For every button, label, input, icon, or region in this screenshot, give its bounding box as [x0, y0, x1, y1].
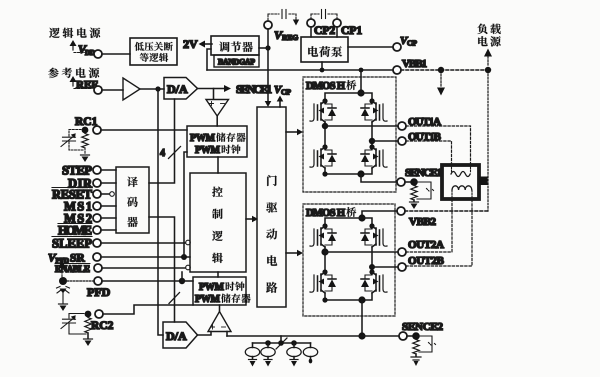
power arrow load supply — [484, 49, 492, 66]
svg-text:PWM: PWM — [195, 145, 221, 156]
power arrow REF — [70, 76, 92, 89]
motor M1 (stepper windings) — [442, 165, 488, 199]
svg-text:D/A: D/A — [167, 82, 188, 96]
wire OUT1B to motor (dashed) — [406, 141, 452, 163]
wire VDD to UVLO block — [102, 53, 130, 55]
capacitor CT2 — [61, 314, 86, 335]
wire bridge1 drain rail — [325, 93, 372, 101]
svg-text:D/A: D/A — [166, 329, 187, 343]
wire DIR to decoder — [101, 182, 116, 184]
svg-text:RC2: RC2 — [91, 320, 114, 332]
wire PWM latch1 to control logic — [217, 157, 219, 173]
svg-text:REG: REG — [282, 33, 298, 42]
wire control logic to PWM latch 2 — [217, 272, 219, 277]
node VCP label (gate drive) — [274, 84, 291, 97]
junction Q4 drain — [369, 144, 374, 149]
pin DIR — [68, 177, 101, 191]
pin OUT1B — [398, 131, 442, 145]
svg-text:PWM: PWM — [190, 133, 216, 144]
capacitor CT1 (dashed branch) — [61, 130, 83, 151]
capacitor CP1-CP2 pump cap (external, dashed) — [311, 10, 337, 20]
bus slash row — [276, 338, 287, 349]
wire PFD node to pin (dotted) — [67, 280, 94, 282]
junction PFD divider — [59, 277, 67, 285]
dac D/A 2 — [163, 322, 198, 348]
pin OUT1A — [398, 116, 441, 130]
ground I1 — [249, 357, 257, 367]
node VDD: logic supply label — [49, 28, 100, 38]
junction bridge2 top — [358, 214, 365, 221]
wire comparator2 sense input — [226, 332, 228, 337]
wire CP2 to charge pump — [310, 27, 312, 37]
svg-text:CP2: CP2 — [314, 25, 335, 37]
pin VDD — [78, 42, 102, 58]
ground I3 — [290, 357, 298, 367]
junction load cap — [438, 67, 444, 73]
junction source rail 2A — [322, 297, 327, 302]
block PWM latch 1 : PWM储存器 / PWM时钟 — [187, 126, 247, 157]
pin VPFD SR — [48, 253, 101, 266]
pin VBB1 — [393, 58, 427, 74]
pin OUT2A — [398, 239, 444, 256]
block BANDGAP — [214, 55, 259, 67]
junction Q6 drain — [369, 223, 374, 228]
svg-text:SR: SR — [70, 253, 85, 265]
block DMOS H-bridge 2 (dashed) — [303, 204, 395, 316]
block charge pump 电荷泵 — [301, 37, 348, 62]
svg-text:PWM: PWM — [199, 282, 225, 293]
pin OUT2B — [398, 255, 445, 271]
svg-text:BANDGAP: BANDGAP — [218, 58, 255, 67]
junction Q7 drain — [322, 269, 327, 274]
svg-text:OUT2B: OUT2B — [408, 255, 445, 267]
transistor Q5 (high side A) — [310, 226, 336, 247]
svg-text:VBB1: VBB1 — [402, 58, 427, 70]
junction load supply — [485, 67, 491, 73]
wire buffer to DAC1 — [140, 88, 164, 90]
svg-text:SENCE1: SENCE1 — [236, 84, 272, 96]
svg-text:CP1: CP1 — [341, 25, 362, 37]
wire RS2 loop (external) — [416, 336, 436, 352]
wire decoder bus to DAC1 (4-bit) — [149, 99, 175, 183]
svg-text:2V: 2V — [183, 37, 198, 51]
wire bridge2 source rail — [325, 293, 372, 300]
wire VBB2 feed bridge2 — [362, 211, 397, 218]
wire RC1 to PWM latch 1 — [101, 129, 187, 131]
pin MS1 — [64, 200, 101, 214]
svg-text:VBB2: VBB2 — [409, 216, 437, 228]
wire REF vertical bus to DAC2 — [158, 89, 163, 335]
junction Q8 drain — [369, 269, 374, 274]
ground I2 — [264, 357, 272, 367]
junction Q5 drain — [322, 223, 327, 228]
dac D/A 1 — [164, 78, 198, 100]
junction bridge1 feed / VBB — [359, 68, 364, 73]
transistor Q3 (low side A) — [310, 147, 336, 168]
wire OUT2B to pin — [372, 266, 398, 268]
pin HOME — [58, 224, 101, 238]
transistor Q1 (high side A) — [310, 101, 336, 122]
svg-text:4: 4 — [160, 148, 165, 159]
pin SENCE1 — [397, 167, 442, 186]
pin VCP — [393, 35, 417, 51]
wire VCP stub arrow up — [277, 96, 284, 108]
ground RS1 — [410, 200, 419, 209]
wire SR to PWM latch 1 — [184, 152, 187, 257]
ground RC1 — [81, 148, 90, 162]
wire OUT1A to motor (dashed) — [406, 126, 471, 163]
pin SLEEP — [52, 237, 101, 251]
wire ENABLE to control logic (inverting) — [102, 265, 190, 270]
transistor Q7 (low side A) — [310, 272, 336, 293]
pin SENCE2 — [399, 321, 444, 340]
junction Q2 drain — [369, 98, 374, 103]
wire charge pump to VCP pin — [348, 46, 393, 48]
wire comparator1 to PWM latch 1 — [216, 116, 218, 126]
wire DAC1 to comparator 1 — [198, 89, 214, 100]
wire DAC2 to comparator 2 — [198, 332, 212, 336]
current source I2 — [261, 343, 275, 357]
current source I3 — [287, 343, 301, 357]
pin MS2 — [64, 212, 101, 226]
junction REF node — [155, 86, 160, 91]
junction OUT1B tap — [369, 138, 375, 144]
wire PFD to control logic — [102, 280, 182, 282]
arrow into gate drive top — [265, 101, 272, 107]
wire decoder bus to DAC2 — [149, 217, 175, 322]
wire bridge1 to SENCE1 pin — [361, 174, 397, 182]
wire gate drive to bridge 1 arrow — [286, 129, 303, 136]
wire SR to control logic — [101, 256, 190, 258]
resistor RS1 (external sense) — [411, 186, 417, 201]
wire charge pump to VBB rail — [321, 62, 323, 70]
wire PWM latch2 to comparator 2 — [219, 305, 221, 311]
wire gate drive to bridge 2 arrow — [286, 250, 303, 257]
wire load supply to VBB2 (dotted vertical) — [487, 74, 489, 211]
resistor RT2 — [85, 318, 91, 334]
pin PFD — [87, 277, 111, 299]
bus slash 4 — [160, 147, 181, 160]
wire VBB feed bridge1 — [360, 70, 362, 93]
junction bridge1 sense — [357, 170, 364, 177]
wire VREG to gate drive — [267, 29, 269, 102]
current source I4 — [303, 343, 317, 357]
wire leg OUT2A — [324, 247, 326, 272]
junction source rail A — [322, 171, 327, 176]
block DMOS H-bridge 1 (dashed) — [303, 77, 396, 192]
svg-text:SENCE1: SENCE1 — [405, 167, 442, 179]
wire RESET to decoder (inverting) — [101, 192, 114, 197]
pin RC2 — [85, 310, 114, 332]
transistor Q8 (low side B) — [361, 272, 387, 293]
wire regulator 2V output arrow — [199, 41, 213, 48]
wire bridge2 to SENCE2 line — [361, 300, 363, 336]
junction SR blanking — [181, 254, 187, 260]
block decoder 译码器 — [116, 167, 149, 233]
diode zener PFD — [57, 287, 70, 304]
resistor RT1 — [82, 134, 88, 149]
comparator 1 (PWM) — [206, 100, 229, 117]
wire SENCE1 feedback stub arrow — [214, 85, 232, 92]
ground RC2 — [84, 333, 93, 346]
node load supply 负载电源 — [477, 24, 500, 34]
wire bridge1 source rail — [325, 168, 372, 174]
junction row 2 — [278, 340, 284, 346]
junction row 3 — [291, 340, 297, 346]
junction SENCE2 line — [358, 332, 365, 339]
wire bridge2 drain rail — [325, 218, 372, 226]
wire PFD to PWM latch 2 — [182, 280, 193, 282]
wire MS2 to decoder — [101, 217, 116, 219]
pin CP1 — [333, 19, 362, 37]
svg-text:CP: CP — [407, 39, 417, 48]
wire current source row — [253, 342, 311, 344]
junction OUT2A tap — [321, 248, 328, 255]
ground PFD — [59, 303, 68, 305]
junction bridge2 sense — [358, 296, 365, 303]
junction Q1 drain — [322, 98, 327, 103]
wire leg OUT2B — [371, 247, 373, 272]
pin RC1 — [75, 116, 101, 134]
wire control logic to gate drive arrow — [246, 216, 258, 223]
svg-text:OUT2A: OUT2A — [408, 239, 444, 251]
wire leg OUT1B — [371, 122, 373, 147]
svg-text:STEP: STEP — [62, 164, 92, 178]
block gate drive 门驱动电路 — [257, 107, 286, 307]
svg-text:CP: CP — [281, 88, 291, 97]
wire SLEEP to control logic (inverting) — [101, 240, 190, 245]
junction OUT1A tap — [322, 123, 328, 129]
wire SENCE2 line — [227, 335, 399, 337]
wire OUT1A to pin — [325, 125, 398, 127]
junction bridge1 top — [357, 89, 364, 96]
wire leg OUT1A — [324, 122, 326, 147]
wire MS1 to decoder — [101, 205, 116, 207]
wire current source row riser — [280, 336, 282, 343]
capacitor VREG bypass (external, dashed) — [268, 10, 299, 26]
junction charge pump / VBB — [320, 68, 325, 73]
label DMOS H桥 1 — [306, 80, 356, 92]
junction row 1 — [265, 340, 271, 346]
transistor Q4 (low side B) — [361, 147, 387, 168]
current source I1 — [245, 343, 259, 357]
power arrow VDD — [70, 40, 92, 53]
block control logic 控制逻辑 — [190, 173, 246, 272]
svg-text:HOME: HOME — [58, 224, 92, 238]
svg-text:SLEEP: SLEEP — [52, 237, 92, 251]
wire STEP to decoder — [101, 169, 116, 171]
block PWM latch 2 : PWM时钟 / PWM储存器 — [193, 277, 251, 305]
block UVLO 低压关断等逻辑 — [130, 38, 177, 65]
transistor Q6 (high side B) — [361, 226, 387, 247]
wire PFD up into control logic — [181, 272, 183, 281]
pin CP2 — [307, 19, 335, 37]
junction sense resistor 1 — [405, 181, 411, 183]
ground RS2 — [411, 354, 421, 366]
junction sense resistor 2 — [407, 335, 413, 337]
svg-text:DMOS H: DMOS H — [306, 81, 345, 92]
svg-text:PFD: PFD — [87, 285, 111, 299]
wire OUT1B to pin — [372, 140, 398, 142]
block regulator 调节器 — [211, 36, 259, 55]
pin STEP — [62, 164, 101, 178]
pin ENABLE — [55, 264, 102, 275]
junction OUT2B tap — [369, 264, 375, 270]
pin RESET — [52, 188, 101, 202]
ground I4 — [309, 357, 313, 364]
pin REF — [76, 79, 102, 94]
pin VREG — [264, 21, 298, 42]
wire CP1 to charge pump — [336, 27, 338, 37]
power arrow ENABLE pullup — [58, 261, 66, 278]
wire OUT2A to motor (dashed) — [406, 201, 452, 252]
wire regulator input from VBB rail — [207, 49, 211, 70]
wire OUT2B to motor (dashed) — [406, 201, 472, 266]
transistor Q2 (high side B) — [361, 101, 387, 122]
wire VBB1 rail — [207, 69, 393, 71]
wire RC2 to PWM latch 2 — [103, 305, 193, 314]
junction VREG-regulator — [265, 45, 270, 50]
bus slash 2 — [169, 293, 180, 304]
wire OUT2A to pin — [325, 251, 398, 253]
pin VBB2 — [397, 207, 437, 228]
wire VBB2 to load supply (dashed) — [405, 210, 488, 212]
junction Q3 drain — [322, 144, 327, 149]
svg-text:PWM: PWM — [195, 294, 221, 305]
svg-text:SENCE2: SENCE2 — [402, 321, 444, 333]
wire RS1 loop (external) — [414, 182, 434, 199]
wire REF to buffer amp — [102, 89, 123, 91]
comparator 2 (PWM) — [208, 312, 231, 332]
node REF: reference supply label — [48, 68, 99, 78]
junction PFD branch — [179, 278, 185, 284]
label DMOS H桥 2 — [306, 207, 356, 219]
wire HOME to decoder — [101, 229, 116, 231]
resistor RS2 (external sense) — [413, 340, 419, 355]
capacitor VBB bypass arrow (dashed) — [437, 74, 445, 96]
wire VBB1 to load supply (dashed) — [401, 69, 488, 71]
op-amp REF buffer — [123, 78, 140, 100]
